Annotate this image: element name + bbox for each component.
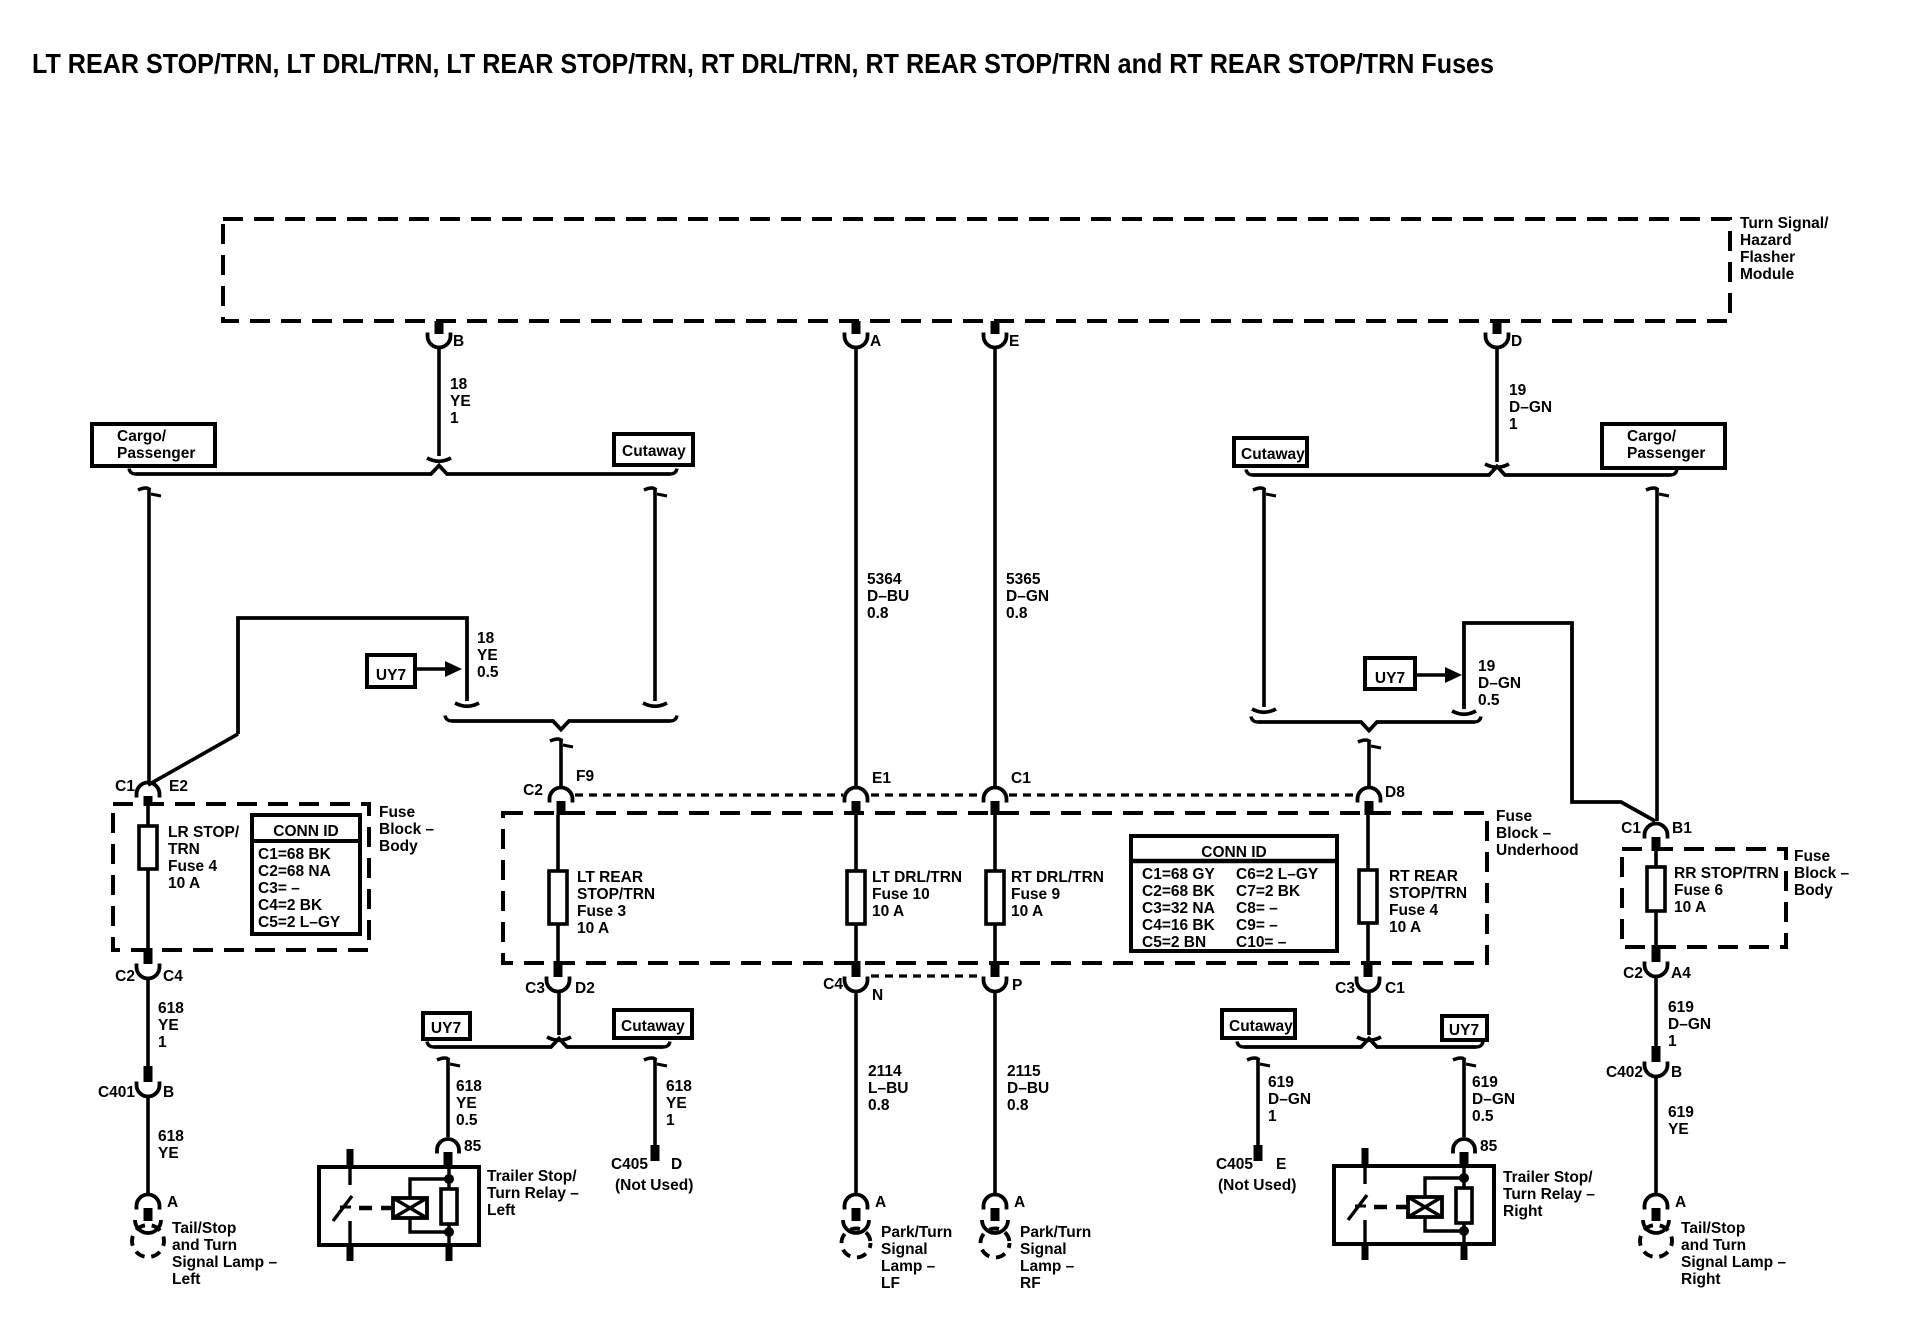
svg-text:YE: YE — [1668, 1121, 1689, 1138]
label 619 D-GN 1 cutaway — [1268, 1074, 1311, 1125]
svg-text:C1: C1 — [115, 778, 135, 795]
wire 19 D-GN 1 from pin D — [1485, 349, 1509, 467]
connector 85 left — [437, 1138, 482, 1167]
svg-text:Flasher: Flasher — [1740, 249, 1795, 266]
wire 619 YE right — [1654, 1078, 1658, 1193]
UY7 arrow left — [415, 661, 462, 677]
trailer stop turn relay left — [319, 1149, 479, 1261]
label lr stop fuse 4 — [168, 824, 240, 892]
connector D8 — [1358, 784, 1406, 815]
svg-text:Trailer Stop/: Trailer Stop/ — [487, 1168, 577, 1185]
label 2114 L-BU 0.8 — [868, 1063, 908, 1114]
svg-text:Fuse 10: Fuse 10 — [872, 886, 930, 903]
svg-text:1: 1 — [666, 1112, 675, 1129]
label 619 D-GN 0.5 — [1472, 1074, 1515, 1125]
svg-text:C4: C4 — [823, 976, 843, 993]
svg-text:RT REAR: RT REAR — [1389, 868, 1458, 885]
svg-text:LT DRL/TRN: LT DRL/TRN — [872, 869, 962, 886]
svg-text:C1: C1 — [1621, 820, 1641, 837]
svg-text:Fuse: Fuse — [1496, 808, 1533, 825]
svg-text:A: A — [1014, 1194, 1025, 1211]
wire 2115 D-BU 0.8 — [993, 993, 997, 1193]
svg-text:Body: Body — [1794, 882, 1833, 899]
connector 85 right — [1453, 1138, 1498, 1166]
lamp connector A right — [1640, 1194, 1686, 1257]
svg-text:UY7: UY7 — [376, 667, 406, 684]
turn signal hazard flasher module box — [223, 219, 1730, 321]
connector C2 C4 — [115, 948, 183, 985]
svg-text:C5=2 BN: C5=2 BN — [1142, 934, 1206, 951]
svg-text:10 A: 10 A — [872, 903, 904, 920]
svg-text:85: 85 — [1480, 1138, 1498, 1155]
UY7 option box left — [367, 655, 415, 687]
svg-text:UY7: UY7 — [431, 1020, 461, 1037]
svg-text:618: 618 — [666, 1078, 692, 1095]
connector C402 B — [1606, 1046, 1682, 1081]
label 5364 D-BU 0.8 — [867, 571, 909, 622]
svg-text:618: 618 — [158, 1000, 184, 1017]
connector C1 E2 — [115, 778, 188, 806]
label 619 YE right — [1668, 1104, 1694, 1138]
brace merge to C2 F9 — [445, 716, 677, 730]
svg-text:5364: 5364 — [867, 571, 902, 588]
connector C2 F9 — [523, 768, 594, 815]
svg-text:Park/Turn: Park/Turn — [881, 1224, 952, 1241]
svg-text:RT DRL/TRN: RT DRL/TRN — [1011, 869, 1104, 886]
conn id table body left — [252, 815, 360, 934]
svg-text:C405: C405 — [1216, 1156, 1253, 1173]
svg-text:Cutaway: Cutaway — [1241, 446, 1305, 463]
svg-text:Fuse: Fuse — [1794, 848, 1831, 865]
svg-text:YE: YE — [477, 647, 498, 664]
connector C4 N — [823, 961, 883, 1004]
svg-text:UY7: UY7 — [1449, 1022, 1479, 1039]
fuse LR STOP/TRN Fuse 4 — [139, 806, 157, 948]
svg-text:Cargo/: Cargo/ — [1627, 428, 1677, 445]
Cutaway box left upper — [614, 434, 693, 465]
wire to connector C2 F9 — [550, 739, 573, 787]
svg-text:A4: A4 — [1671, 965, 1691, 982]
fuse LT DRL/TRN Fuse 10 — [847, 815, 865, 961]
lamp connector A left — [132, 1194, 178, 1257]
svg-text:0.5: 0.5 — [477, 664, 499, 681]
wire 618 YE 1 not used — [644, 1058, 667, 1161]
wire 5365 D-GN 0.8 from pin E — [993, 349, 997, 787]
label 19 D-GN 1 — [1509, 382, 1552, 433]
svg-text:Right: Right — [1681, 1271, 1721, 1288]
svg-text:C2: C2 — [1623, 965, 1643, 982]
wire 19 D-GN 0.5 — [1452, 623, 1655, 821]
svg-text:Tail/Stop: Tail/Stop — [1681, 1220, 1745, 1237]
svg-text:10 A: 10 A — [577, 920, 609, 937]
svg-text:C6=2 L–GY: C6=2 L–GY — [1236, 866, 1319, 883]
svg-text:B: B — [163, 1084, 174, 1101]
connector C405 E — [1216, 1156, 1296, 1194]
svg-text:C10= –: C10= – — [1236, 934, 1287, 951]
svg-text:C1: C1 — [1385, 980, 1405, 997]
svg-text:1: 1 — [450, 410, 459, 427]
svg-text:Left: Left — [487, 1202, 515, 1219]
wire 619 D-GN 1 right — [1654, 978, 1658, 1046]
park turn lamp RF — [981, 1194, 1026, 1258]
label fuse 9 — [1011, 869, 1104, 920]
svg-text:Turn Signal/: Turn Signal/ — [1740, 215, 1829, 232]
brace split right — [1246, 467, 1677, 476]
connector C3 C1 — [1335, 961, 1405, 997]
svg-text:Block –: Block – — [1794, 865, 1850, 882]
svg-text:E: E — [1009, 333, 1019, 350]
svg-text:Lamp –: Lamp – — [1020, 1258, 1075, 1275]
title — [32, 48, 1494, 79]
svg-text:C4=16 BK: C4=16 BK — [1142, 917, 1216, 934]
svg-text:Turn Relay –: Turn Relay – — [1503, 1186, 1595, 1203]
svg-text:1: 1 — [1509, 416, 1518, 433]
svg-text:D–GN: D–GN — [1668, 1016, 1711, 1033]
wire 618 YE 1 left — [146, 980, 150, 1066]
svg-text:Passenger: Passenger — [117, 445, 195, 462]
svg-text:2115: 2115 — [1007, 1063, 1041, 1080]
svg-text:B: B — [1671, 1064, 1682, 1081]
svg-text:L–BU: L–BU — [868, 1080, 908, 1097]
wire from C3 D2 down — [547, 993, 571, 1040]
brace split lower right — [1237, 1039, 1483, 1048]
svg-text:C3: C3 — [1335, 980, 1355, 997]
UY7 arrow right — [1415, 667, 1462, 683]
svg-text:Block –: Block – — [379, 821, 435, 838]
connector E1 — [845, 770, 892, 815]
svg-text:1: 1 — [158, 1034, 167, 1051]
connector P — [984, 961, 1023, 994]
svg-text:0.8: 0.8 — [867, 605, 889, 622]
label 5365 D-GN 0.8 — [1006, 571, 1049, 622]
svg-text:1: 1 — [1268, 1108, 1277, 1125]
svg-text:Fuse 3: Fuse 3 — [577, 903, 626, 920]
UY7 option box right — [1365, 658, 1415, 689]
svg-text:10 A: 10 A — [168, 875, 200, 892]
svg-text:Underhood: Underhood — [1496, 842, 1579, 859]
svg-text:Signal Lamp –: Signal Lamp – — [1681, 1254, 1786, 1271]
trailer relay right label — [1503, 1169, 1595, 1220]
dotted line C4 to P — [871, 974, 981, 977]
svg-text:Park/Turn: Park/Turn — [1020, 1224, 1091, 1241]
svg-text:Signal Lamp –: Signal Lamp – — [172, 1254, 277, 1271]
svg-text:Fuse 4: Fuse 4 — [1389, 902, 1438, 919]
svg-text:E: E — [1276, 1156, 1286, 1173]
svg-text:18: 18 — [450, 376, 468, 393]
svg-text:D–BU: D–BU — [1007, 1080, 1049, 1097]
wire 619 D-GN 1 not used — [1247, 1058, 1270, 1161]
label fuse 3 — [577, 869, 655, 937]
svg-text:Fuse 4: Fuse 4 — [168, 858, 217, 875]
svg-text:C1: C1 — [1011, 770, 1031, 787]
wire cargo/passenger branch left — [138, 488, 161, 782]
svg-text:Body: Body — [379, 838, 418, 855]
connector C2 A4 — [1623, 945, 1691, 982]
label 18 YE 0.5 — [477, 630, 499, 681]
label 618 YE 0.5 — [456, 1078, 482, 1129]
svg-text:and Turn: and Turn — [1681, 1237, 1746, 1254]
connector C1 B1 — [1621, 820, 1692, 851]
svg-text:619: 619 — [1268, 1074, 1294, 1091]
svg-text:C3= –: C3= – — [258, 880, 300, 897]
svg-text:10 A: 10 A — [1389, 919, 1421, 936]
fuse block underhood label — [1496, 808, 1579, 859]
Cargo/Passenger box left — [92, 424, 215, 466]
brace merge to D8 — [1251, 717, 1481, 731]
wire cutaway branch right — [1252, 488, 1276, 712]
svg-text:Trailer Stop/: Trailer Stop/ — [1503, 1169, 1593, 1186]
label rt rear fuse 4 — [1389, 868, 1467, 936]
svg-text:Hazard: Hazard — [1740, 232, 1792, 249]
svg-text:D–GN: D–GN — [1006, 588, 1049, 605]
svg-text:D2: D2 — [575, 980, 595, 997]
Cargo/Passenger box right — [1602, 424, 1725, 468]
label 618 YE 1 left — [158, 1000, 184, 1051]
module pin A — [845, 321, 882, 350]
Cutaway box lower left — [614, 1010, 692, 1038]
svg-text:B1: B1 — [1672, 820, 1692, 837]
label 18 YE 1 — [450, 376, 471, 427]
label 618 YE 1 cutaway — [666, 1078, 692, 1129]
brace split lower left — [427, 1039, 670, 1048]
Cutaway box right upper — [1234, 438, 1307, 466]
svg-text:STOP/TRN: STOP/TRN — [577, 886, 655, 903]
svg-text:D–GN: D–GN — [1478, 675, 1521, 692]
svg-text:C3: C3 — [525, 980, 545, 997]
svg-text:(Not Used): (Not Used) — [1218, 1177, 1296, 1194]
svg-text:D–GN: D–GN — [1509, 399, 1552, 416]
Cutaway box lower right — [1222, 1010, 1295, 1038]
svg-text:C2: C2 — [523, 782, 543, 799]
svg-text:CONN ID: CONN ID — [1201, 844, 1266, 861]
svg-text:C7=2 BK: C7=2 BK — [1236, 883, 1301, 900]
dotted bus line top — [575, 793, 1355, 796]
svg-text:RR STOP/TRN: RR STOP/TRN — [1674, 865, 1779, 882]
svg-text:RF: RF — [1020, 1275, 1041, 1292]
svg-text:0.8: 0.8 — [868, 1097, 890, 1114]
wire 619 D-GN 0.5 to relay — [1453, 1058, 1476, 1137]
svg-text:B: B — [453, 333, 464, 350]
svg-text:LR STOP/: LR STOP/ — [168, 824, 240, 841]
park turn lamp RF label — [1020, 1224, 1091, 1292]
trailer stop turn relay right — [1334, 1148, 1494, 1260]
tail stop lamp left label — [172, 1220, 277, 1288]
svg-text:Tail/Stop: Tail/Stop — [172, 1220, 236, 1237]
svg-text:Signal: Signal — [1020, 1241, 1067, 1258]
svg-text:C3=32 NA: C3=32 NA — [1142, 900, 1215, 917]
wire 5364 D-BU 0.8 from pin A — [854, 349, 858, 787]
svg-text:C2=68 NA: C2=68 NA — [258, 863, 331, 880]
svg-text:TRN: TRN — [168, 841, 200, 858]
svg-text:618: 618 — [456, 1078, 482, 1095]
label 618 YE — [158, 1128, 184, 1162]
wire to connector D8 — [1358, 740, 1381, 787]
svg-text:Right: Right — [1503, 1203, 1543, 1220]
svg-text:0.5: 0.5 — [1472, 1108, 1494, 1125]
label 619 D-GN 1 right — [1668, 999, 1711, 1050]
svg-text:D–GN: D–GN — [1472, 1091, 1515, 1108]
svg-text:18: 18 — [477, 630, 495, 647]
svg-text:C4=2 BK: C4=2 BK — [258, 897, 323, 914]
label 19 D-GN 0.5 — [1478, 658, 1521, 709]
svg-text:85: 85 — [464, 1138, 482, 1155]
svg-text:C4: C4 — [163, 968, 183, 985]
svg-text:10 A: 10 A — [1674, 899, 1706, 916]
svg-text:A: A — [870, 333, 881, 350]
svg-text:Cutaway: Cutaway — [1229, 1018, 1293, 1035]
svg-text:YE: YE — [666, 1095, 687, 1112]
fuse block body right box — [1622, 849, 1786, 947]
svg-text:and Turn: and Turn — [172, 1237, 237, 1254]
svg-text:A: A — [1675, 1194, 1686, 1211]
svg-text:YE: YE — [158, 1145, 179, 1162]
svg-text:YE: YE — [158, 1017, 179, 1034]
svg-text:Fuse 9: Fuse 9 — [1011, 886, 1060, 903]
svg-text:19: 19 — [1478, 658, 1496, 675]
svg-text:0.8: 0.8 — [1006, 605, 1028, 622]
svg-text:D–BU: D–BU — [867, 588, 909, 605]
svg-text:Fuse 6: Fuse 6 — [1674, 882, 1723, 899]
park turn lamp LF label — [881, 1224, 952, 1292]
svg-text:P: P — [1012, 977, 1022, 994]
svg-text:LT REAR: LT REAR — [577, 869, 643, 886]
svg-text:E2: E2 — [169, 778, 188, 795]
svg-text:C401: C401 — [98, 1084, 135, 1101]
wire 2114 L-BU 0.8 — [854, 993, 858, 1193]
fuse RT DRL/TRN Fuse 9 — [986, 815, 1004, 961]
svg-text:0.5: 0.5 — [456, 1112, 478, 1129]
fuse LT REAR STOP/TRN Fuse 3 — [549, 815, 567, 961]
svg-text:0.8: 0.8 — [1007, 1097, 1029, 1114]
svg-text:Fuse: Fuse — [379, 804, 416, 821]
park turn lamp LF — [842, 1194, 887, 1258]
wire 618 YE 0.5 to relay — [437, 1058, 460, 1137]
module pin D — [1486, 321, 1523, 350]
svg-text:C5=2 L–GY: C5=2 L–GY — [258, 914, 341, 931]
svg-text:D: D — [1511, 333, 1522, 350]
fuse RT REAR STOP/TRN Fuse 4 — [1359, 815, 1377, 961]
fuse block underhood box — [503, 813, 1487, 963]
svg-text:D–GN: D–GN — [1268, 1091, 1311, 1108]
wire 618 YE to lamp — [146, 1098, 150, 1193]
svg-text:Signal: Signal — [881, 1241, 928, 1258]
svg-text:A: A — [875, 1194, 886, 1211]
connector C3 D2 — [525, 961, 595, 997]
module pin B — [428, 321, 465, 350]
svg-text:Cargo/: Cargo/ — [117, 428, 167, 445]
svg-text:C8= –: C8= – — [1236, 900, 1278, 917]
svg-text:Left: Left — [172, 1271, 200, 1288]
svg-text:10 A: 10 A — [1011, 903, 1043, 920]
svg-text:D8: D8 — [1385, 784, 1405, 801]
brace split left — [129, 466, 677, 475]
fuse block body left box — [113, 804, 369, 950]
trailer relay left label — [487, 1168, 579, 1219]
svg-text:619: 619 — [1668, 1104, 1694, 1121]
svg-text:Cutaway: Cutaway — [621, 1018, 685, 1035]
svg-text:Turn Relay –: Turn Relay – — [487, 1185, 579, 1202]
svg-text:N: N — [872, 987, 883, 1004]
label 2115 D-BU 0.8 — [1007, 1063, 1049, 1114]
svg-text:LF: LF — [881, 1275, 900, 1292]
connector C405 D — [611, 1156, 693, 1194]
svg-text:Lamp –: Lamp – — [881, 1258, 936, 1275]
svg-text:Cutaway: Cutaway — [622, 443, 686, 460]
label rr stop fuse 6 — [1674, 865, 1779, 916]
svg-text:C2=68 BK: C2=68 BK — [1142, 883, 1216, 900]
svg-text:C405: C405 — [611, 1156, 648, 1173]
tail stop lamp right label — [1681, 1220, 1786, 1288]
svg-text:2114: 2114 — [868, 1063, 902, 1080]
svg-text:619: 619 — [1472, 1074, 1498, 1091]
svg-text:LT REAR STOP/TRN, LT DRL/TRN,: LT REAR STOP/TRN, LT DRL/TRN, LT REAR ST… — [32, 48, 1494, 79]
svg-text:619: 619 — [1668, 999, 1694, 1016]
module label — [1740, 215, 1829, 283]
wire cargo branch right — [1646, 488, 1669, 821]
fuse block body right label — [1794, 848, 1850, 899]
label fuse 10 — [872, 869, 962, 920]
svg-text:618: 618 — [158, 1128, 184, 1145]
svg-text:C2: C2 — [115, 968, 135, 985]
connector C1 underhood — [984, 770, 1032, 815]
svg-text:D: D — [671, 1156, 682, 1173]
svg-text:STOP/TRN: STOP/TRN — [1389, 885, 1467, 902]
svg-text:UY7: UY7 — [1375, 670, 1405, 687]
svg-text:Module: Module — [1740, 266, 1795, 283]
UY7 box lower left — [423, 1013, 470, 1039]
svg-text:0.5: 0.5 — [1478, 692, 1500, 709]
wire 18 YE 0.5 — [148, 618, 479, 785]
connector C401 B — [98, 1066, 174, 1101]
svg-text:E1: E1 — [872, 770, 891, 787]
svg-text:Passenger: Passenger — [1627, 445, 1705, 462]
svg-text:1: 1 — [1668, 1033, 1677, 1050]
fuse block body left label — [379, 804, 435, 855]
svg-text:YE: YE — [450, 393, 471, 410]
wire 18 YE 1 from pin B — [427, 349, 451, 461]
module pin E — [984, 321, 1020, 350]
conn id table underhood — [1131, 836, 1337, 951]
svg-text:YE: YE — [456, 1095, 477, 1112]
wire from C3 C1 down — [1357, 993, 1381, 1040]
svg-text:C1=68 GY: C1=68 GY — [1142, 866, 1215, 883]
svg-text:C9= –: C9= – — [1236, 917, 1278, 934]
svg-text:(Not Used): (Not Used) — [615, 1177, 693, 1194]
svg-text:Block –: Block – — [1496, 825, 1552, 842]
svg-text:CONN ID: CONN ID — [273, 823, 338, 840]
svg-text:19: 19 — [1509, 382, 1527, 399]
svg-text:C402: C402 — [1606, 1064, 1643, 1081]
svg-text:C1=68 BK: C1=68 BK — [258, 846, 332, 863]
UY7 box lower right — [1442, 1016, 1487, 1040]
fuse RR STOP/TRN Fuse 6 — [1647, 851, 1665, 945]
svg-text:F9: F9 — [576, 768, 594, 785]
svg-text:5365: 5365 — [1006, 571, 1041, 588]
svg-text:A: A — [167, 1194, 178, 1211]
wire cutaway branch left — [643, 488, 667, 706]
